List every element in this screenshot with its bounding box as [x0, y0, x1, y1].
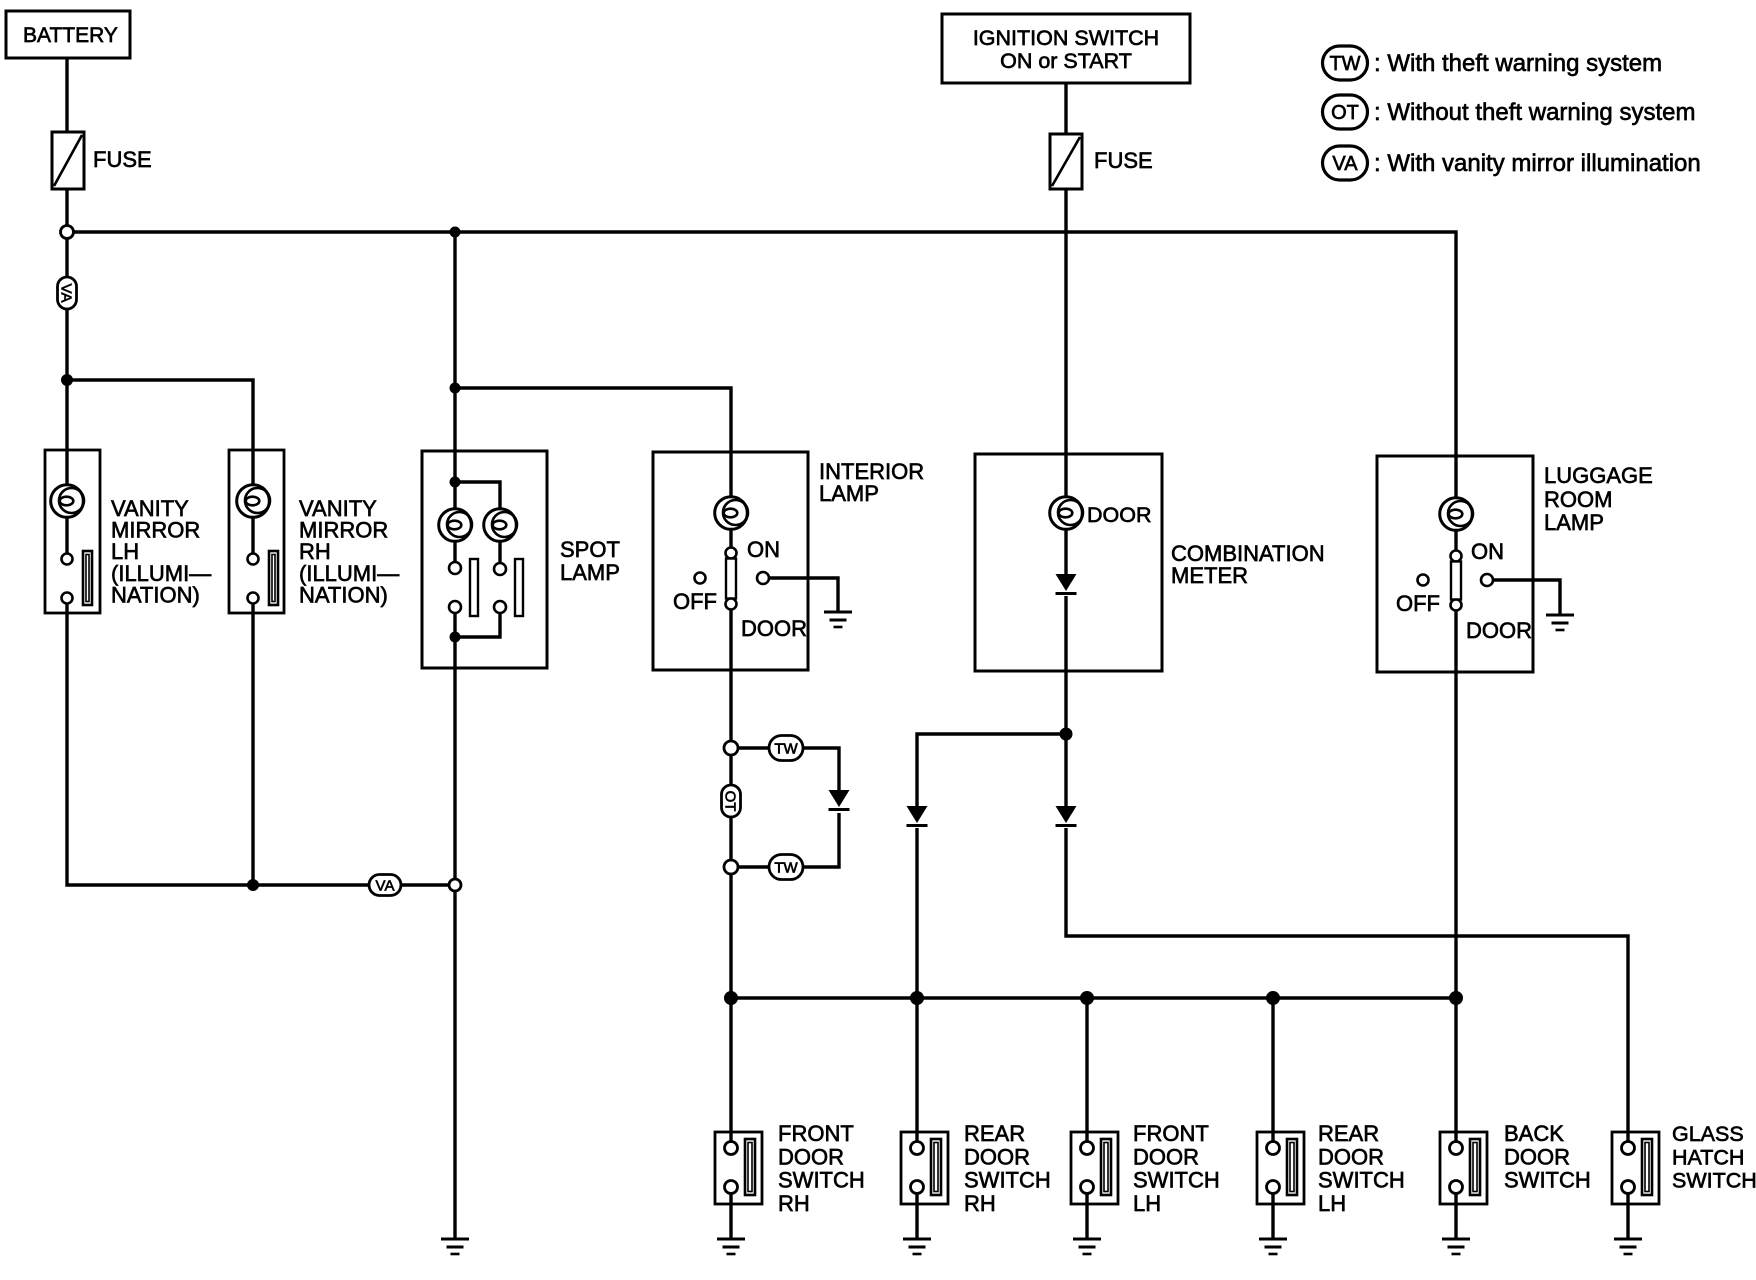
wire junction down to diode D4	[1064, 734, 1067, 806]
wire ON contact to ground (interior)	[769, 578, 838, 611]
wire bus down to front door switch LH	[1085, 998, 1088, 1141]
spot lamp box	[422, 451, 547, 668]
svg-text:OFF: OFF	[1396, 591, 1440, 616]
bottom bus wire	[731, 996, 1456, 999]
svg-text:FUSE: FUSE	[93, 147, 152, 172]
wire branch to bottom bus	[729, 874, 732, 998]
svg-text:LAMP: LAMP	[1544, 510, 1604, 535]
contact circles spot right pair	[494, 563, 506, 575]
svg-text:LH: LH	[1133, 1191, 1161, 1216]
ground interior lamp	[824, 612, 852, 627]
wire bus down to front door switch RH	[729, 998, 732, 1141]
contact top (vanity RH)	[248, 554, 259, 565]
fuse F2	[1050, 134, 1082, 189]
svg-text:DOOR: DOOR	[741, 616, 807, 641]
wire vanity LH to left bus	[67, 603, 369, 885]
vanity mirror LH box	[45, 450, 100, 613]
diode D1 (theft warning branch)	[829, 790, 850, 810]
junction dot below combination meter	[1060, 728, 1073, 741]
contact ON (luggage)	[1481, 574, 1493, 586]
svg-text:SWITCH: SWITCH	[778, 1168, 865, 1193]
lamp bulb vanity RH	[237, 485, 270, 518]
back door switch	[1440, 1132, 1487, 1204]
svg-text:NATION): NATION)	[111, 582, 200, 607]
wire luggage lamp down to back door switch (crosses branch wire)	[1454, 611, 1457, 1141]
wire diode to bottom TW	[803, 813, 839, 867]
svg-text:TW: TW	[774, 740, 798, 757]
svg-text:REAR: REAR	[1318, 1121, 1379, 1146]
legend connector VA	[1323, 146, 1368, 180]
luggage room lamp box	[1377, 456, 1533, 672]
ground spot lamp	[441, 1239, 469, 1254]
ignition switch box	[942, 14, 1190, 83]
diode D4 (glass hatch branch)	[1056, 806, 1077, 826]
svg-text:RH: RH	[778, 1191, 810, 1216]
front door switch RH	[715, 1132, 762, 1204]
switch bar spot 1	[470, 559, 478, 616]
svg-text:LUGGAGE: LUGGAGE	[1544, 463, 1653, 488]
wire spot right contact to bottom junction	[455, 613, 500, 637]
legend connector OT	[1323, 95, 1368, 129]
svg-text:ON: ON	[1471, 539, 1504, 564]
wire junction to spot bulb 1	[453, 482, 456, 510]
junction dot interior-lamp tap	[450, 383, 461, 394]
combination meter box	[975, 454, 1162, 671]
junction dot bus / front door switch RH	[724, 991, 738, 1005]
switch bar spot 2	[515, 559, 523, 616]
contact ON (interior)	[757, 572, 769, 584]
svg-text:RH: RH	[964, 1191, 996, 1216]
ground back door switch	[1442, 1239, 1470, 1254]
junction dot bottom inside spot lamp	[450, 632, 461, 643]
svg-text:ON: ON	[747, 537, 780, 562]
wire D3 to bottom bus	[915, 828, 918, 998]
svg-text:SWITCH: SWITCH	[1672, 1169, 1756, 1193]
wire spot lamp to node	[453, 637, 456, 879]
wire front door switch LH to ground	[1085, 1194, 1088, 1239]
wire spot bulb1 to contact	[453, 540, 456, 563]
wire tap to interior lamp	[455, 388, 731, 497]
wire glass hatch switch to ground	[1626, 1194, 1629, 1239]
svg-text:ROOM: ROOM	[1544, 487, 1612, 512]
wire to spot bulb 2	[455, 482, 500, 510]
svg-text:VA: VA	[58, 284, 75, 303]
switch bar (vanity RH)	[269, 551, 278, 605]
lamp bulb spot 1	[439, 509, 472, 542]
svg-text:SWITCH: SWITCH	[964, 1168, 1051, 1193]
contact bottom (vanity RH)	[248, 593, 259, 604]
wire ON contact to ground (luggage)	[1493, 580, 1560, 614]
wire junction to left diode branch	[917, 734, 1066, 806]
wire front door switch RH to ground	[729, 1194, 732, 1239]
svg-text:LAMP: LAMP	[560, 560, 620, 585]
node open circle on spot lamp line	[449, 879, 461, 891]
wire bus down to rear door switch RH	[915, 998, 918, 1141]
svg-text:DOOR: DOOR	[1504, 1144, 1570, 1169]
junction dot bus / rear door switch RH	[910, 991, 924, 1005]
ground front door switch LH	[1073, 1239, 1101, 1254]
wire D4 to glass hatch switch (crosses luggage wire)	[1066, 828, 1628, 1141]
fuse F1	[52, 132, 84, 189]
wire top node to TW	[738, 746, 769, 749]
node A (battery bus tap, open circle)	[61, 226, 74, 239]
connector VA (with vanity mirror illumination)	[58, 277, 77, 309]
svg-text:DOOR: DOOR	[1318, 1144, 1384, 1169]
wire fuse to node	[65, 189, 68, 227]
svg-text:: With vanity mirror illuminat: : With vanity mirror illumination	[1374, 150, 1701, 177]
connector OT (without theft warning system)	[722, 785, 741, 817]
svg-text:ON or START: ON or START	[1000, 49, 1132, 73]
junction dot bus / rear door switch LH	[1266, 991, 1280, 1005]
svg-text:LH: LH	[1318, 1191, 1346, 1216]
wire rear door switch RH to ground	[915, 1194, 918, 1239]
svg-text:OT: OT	[722, 791, 739, 812]
node open circle bottom of TW/OT branch	[724, 860, 738, 874]
wire OT to bottom node	[729, 817, 732, 860]
contact OFF (interior)	[695, 573, 706, 584]
wire rear door switch LH to ground	[1271, 1194, 1274, 1239]
lamp bulb vanity LH	[51, 485, 84, 518]
svg-text:IGNITION SWITCH: IGNITION SWITCH	[973, 26, 1159, 50]
svg-text:NATION): NATION)	[299, 582, 388, 607]
diode D3 (left door-switch branch)	[907, 806, 928, 826]
svg-text:OFF: OFF	[673, 589, 717, 614]
wire diode to junction	[1064, 596, 1067, 734]
svg-text:: Without theft warning system: : Without theft warning system	[1374, 99, 1695, 126]
wire ignition to fuse	[1064, 83, 1067, 134]
wire spot node to ground	[453, 891, 456, 1239]
rear door switch RH	[901, 1132, 948, 1204]
wire spot bulb2 to contact	[498, 541, 501, 563]
rear door switch LH	[1257, 1132, 1304, 1204]
switch bar (vanity LH)	[83, 551, 92, 605]
ground rear door switch RH	[903, 1239, 931, 1254]
wire vanity RH down to left bus	[251, 603, 254, 885]
svg-text:TW: TW	[1329, 53, 1360, 75]
vanity mirror RH box	[229, 450, 284, 613]
svg-text:REAR: REAR	[964, 1121, 1025, 1146]
svg-text:TW: TW	[774, 859, 798, 876]
wire fuse down to combination meter (crosses top bus)	[1064, 189, 1067, 498]
node open circle top of TW/OT branch	[724, 741, 738, 755]
wire back door switch to ground	[1454, 1194, 1457, 1239]
diode D2 (combination meter)	[1056, 574, 1077, 594]
svg-text:SWITCH: SWITCH	[1133, 1168, 1220, 1193]
wire to vanity mirror RH	[67, 380, 253, 486]
wire interior lamp down to branch	[729, 610, 732, 741]
svg-text:FUSE: FUSE	[1094, 148, 1153, 173]
wire top bus down to spot lamp	[453, 232, 456, 479]
svg-text:HATCH: HATCH	[1672, 1145, 1744, 1169]
wire VA to spot lamp line	[401, 883, 449, 886]
contact top (vanity LH)	[62, 554, 73, 565]
contact bottom (vanity LH)	[62, 593, 73, 604]
ground rear door switch LH	[1259, 1239, 1287, 1254]
lamp bulb combination meter	[1050, 497, 1083, 530]
legend connector TW	[1323, 46, 1368, 80]
svg-text:SWITCH: SWITCH	[1318, 1168, 1405, 1193]
wire node A down to VA	[65, 238, 68, 278]
connector TW bottom (with theft warning system)	[769, 855, 803, 880]
connector TW top (with theft warning system)	[769, 736, 803, 761]
svg-text:METER: METER	[1171, 563, 1248, 588]
svg-text:VA: VA	[1332, 153, 1358, 175]
wire bulb to switch (interior)	[729, 529, 732, 548]
switch slider interior lamp	[726, 548, 737, 610]
wire bulb to contact (vanity LH)	[65, 517, 68, 553]
svg-text:DOOR: DOOR	[1466, 618, 1532, 643]
svg-text:SWITCH: SWITCH	[1504, 1168, 1591, 1193]
junction dot on left bus	[247, 879, 259, 891]
svg-text:SPOT: SPOT	[560, 537, 620, 562]
glass hatch switch	[1612, 1132, 1659, 1204]
lamp bulb spot 2	[484, 509, 517, 542]
svg-text:DOOR: DOOR	[964, 1144, 1030, 1169]
junction dot bus / front door switch LH	[1080, 991, 1094, 1005]
lamp bulb interior	[715, 497, 748, 530]
wire spot left contact down	[453, 613, 456, 637]
junction dot vanity branch	[61, 374, 73, 386]
wire bulb to switch (luggage)	[1454, 530, 1457, 551]
wire TW bottom to node	[738, 865, 769, 868]
svg-text:DOOR: DOOR	[1087, 503, 1152, 527]
junction dot bus / back door switch	[1449, 991, 1463, 1005]
wire bulb to contact (vanity RH)	[251, 517, 254, 553]
contact circles spot left pair	[449, 562, 461, 574]
wire battery to fuse	[65, 58, 68, 132]
wire top bus to luggage lamp	[73, 232, 1456, 499]
junction dot spot-lamp tap on top bus	[450, 227, 461, 238]
interior lamp box	[653, 452, 808, 670]
switch slider luggage room lamp	[1451, 551, 1462, 611]
battery box B1	[6, 11, 130, 58]
svg-text:DOOR: DOOR	[1133, 1144, 1199, 1169]
junction dot inside spot lamp	[450, 477, 461, 488]
svg-text:VA: VA	[376, 877, 395, 894]
svg-text:: With theft warning system: : With theft warning system	[1374, 50, 1662, 77]
svg-text:BACK: BACK	[1504, 1121, 1564, 1146]
svg-text:DOOR: DOOR	[778, 1144, 844, 1169]
ground luggage room lamp	[1546, 615, 1574, 630]
svg-text:FRONT: FRONT	[1133, 1121, 1209, 1146]
connector VA on left bus	[369, 875, 401, 896]
wire VA to junction	[65, 309, 68, 380]
svg-text:GLASS: GLASS	[1672, 1122, 1744, 1146]
svg-text:BATTERY: BATTERY	[23, 24, 118, 47]
svg-text:OT: OT	[1331, 102, 1359, 124]
wire bulb to diode (comb meter)	[1064, 529, 1067, 574]
wire bus down to rear door switch LH	[1271, 998, 1274, 1141]
wire node to OT	[729, 755, 732, 786]
svg-text:LAMP: LAMP	[819, 481, 879, 506]
ground glass hatch switch	[1614, 1239, 1642, 1254]
wire TW to diode branch	[803, 748, 839, 790]
lamp bulb luggage room	[1440, 498, 1473, 531]
contact OFF (luggage)	[1418, 575, 1429, 586]
ground front door switch RH	[717, 1239, 745, 1254]
svg-text:FRONT: FRONT	[778, 1121, 854, 1146]
front door switch LH	[1071, 1132, 1118, 1204]
wire into vanity mirror LH	[65, 380, 68, 486]
